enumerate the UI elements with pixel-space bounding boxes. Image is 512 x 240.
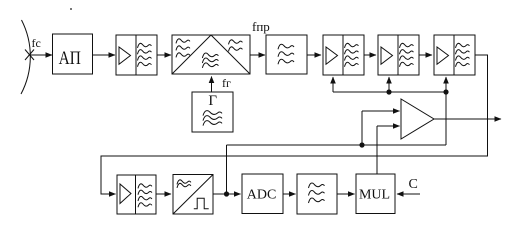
svg-text:fпр: fпр <box>252 19 270 34</box>
svg-text:MUL: MUL <box>359 188 390 203</box>
svg-text:C: C <box>409 177 418 192</box>
svg-text:ADC: ADC <box>247 188 277 203</box>
svg-text:fc: fc <box>32 36 41 50</box>
svg-text:fг: fг <box>222 76 231 90</box>
svg-text:Г: Г <box>208 93 217 109</box>
svg-text:АП: АП <box>59 48 81 69</box>
